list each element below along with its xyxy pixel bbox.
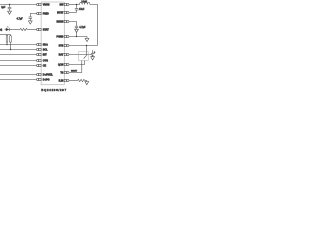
wire D+/PSEL <box>0 74 36 76</box>
wire REGN cap return <box>76 32 78 36</box>
wire SYS rail <box>69 45 97 47</box>
pin ILIM <box>64 79 69 81</box>
wire BAT <box>69 54 92 56</box>
wire D-/PG <box>0 79 36 81</box>
op-amp U1 (charger IC BQ24296/297 body) <box>41 2 64 85</box>
wire pull-up rail <box>0 34 11 36</box>
svg-text:n): n) <box>0 29 2 32</box>
LED D1 <box>5 26 20 31</box>
svg-text:STAT: STAT <box>43 29 49 32</box>
ground GND1 <box>8 11 12 14</box>
svg-text:TS: TS <box>60 72 63 75</box>
svg-text:BQ24296/297: BQ24296/297 <box>41 88 67 92</box>
pin CE <box>37 64 42 66</box>
resistor R4 (ILIM) <box>78 79 85 81</box>
wire SYS to pack <box>86 46 88 52</box>
pin STAT <box>37 28 42 30</box>
ground GND6 <box>85 82 89 85</box>
wire TS <box>69 61 82 73</box>
svg-text:SW: SW <box>60 3 65 6</box>
svg-text:REGN: REGN <box>56 20 63 23</box>
node PGND junction <box>76 36 77 37</box>
svg-text:PGND: PGND <box>56 35 63 38</box>
wire OTG <box>0 60 36 62</box>
svg-text:INT: INT <box>43 54 47 57</box>
wire ILIM <box>69 80 77 82</box>
pin D+/PSEL <box>37 73 42 75</box>
ground GND5 <box>91 57 95 60</box>
pin BTST <box>64 11 69 13</box>
capacitor C4 4.7uF (REGN) <box>75 26 78 29</box>
node SYS junction <box>86 45 87 46</box>
pin PMID <box>37 12 42 14</box>
resistor R2 (SDA pull-up) <box>6 35 8 45</box>
pin PGND <box>64 35 69 37</box>
battery pack box <box>79 52 89 61</box>
pin VBUS <box>37 3 42 5</box>
resistor R1 (STAT) <box>20 28 27 30</box>
pin SDA <box>37 43 42 45</box>
wire INT <box>0 54 36 56</box>
svg-text:D+/PSEL: D+/PSEL <box>43 74 54 77</box>
svg-text:PMID: PMID <box>43 13 49 16</box>
pin SYS <box>64 44 69 46</box>
svg-text:ILIM: ILIM <box>59 80 64 83</box>
wire CE <box>0 65 36 67</box>
ground GND4 <box>85 38 89 41</box>
pin D-/PG <box>37 78 42 80</box>
svg-text:+: + <box>94 51 96 54</box>
ground GND2 <box>28 21 32 24</box>
resistor R3 (SCL pull-up) <box>10 35 12 50</box>
ground GND3 <box>75 29 79 32</box>
svg-text:OTG: OTG <box>43 60 48 63</box>
inductor L1 <box>80 2 90 4</box>
svg-text:2.2µH: 2.2µH <box>81 1 87 3</box>
wire SCL <box>0 49 36 51</box>
pin OTG <box>37 59 42 61</box>
svg-text:BAT: BAT <box>59 54 64 57</box>
capacitor C2 4.7uF <box>29 17 33 21</box>
svg-text:4.7µF: 4.7µF <box>79 26 86 29</box>
wire PMID net <box>30 14 36 18</box>
pin SW <box>64 3 69 5</box>
svg-text:1µF: 1µF <box>1 6 6 9</box>
battery cell BT1 <box>91 50 95 57</box>
svg-text:D-/PG: D-/PG <box>43 78 50 81</box>
wire VBUS net <box>0 4 36 6</box>
svg-text:VBUS: VBUS <box>43 3 50 6</box>
switch S1 (inside pack) <box>84 52 87 59</box>
svg-text:BTST: BTST <box>57 11 64 14</box>
pin QON <box>64 63 69 65</box>
wire QON <box>69 61 84 65</box>
svg-text:CE: CE <box>43 65 47 68</box>
svg-text:SDA: SDA <box>43 43 48 46</box>
node VBUS junction <box>9 4 10 5</box>
wire REGN <box>69 22 76 27</box>
pin REGN <box>64 20 69 22</box>
wire SW to inductor <box>69 4 79 6</box>
wire PGND <box>69 37 87 39</box>
pin TS <box>64 71 69 73</box>
svg-text:47nF: 47nF <box>79 8 85 11</box>
svg-text:QON: QON <box>58 64 64 67</box>
svg-text:SYS: SYS <box>59 45 64 48</box>
wire BTST <box>69 12 76 14</box>
node SW junction <box>76 4 77 5</box>
svg-text:4.7µF: 4.7µF <box>17 18 24 21</box>
pin BAT <box>64 53 69 55</box>
node SDA junction <box>6 44 7 45</box>
wire inductor to SYS rail <box>90 5 98 46</box>
svg-text:103AT: 103AT <box>71 70 78 73</box>
capacitor C1 1uF <box>8 5 12 12</box>
capacitor C3 47nF (bootstrap) <box>75 5 78 13</box>
pin SCL <box>37 48 42 50</box>
wire ILIM resistor to ground <box>85 81 87 82</box>
wire STAT <box>27 29 36 31</box>
pin INT <box>37 53 42 55</box>
node SCL junction <box>10 49 11 50</box>
wire SDA <box>0 44 36 46</box>
svg-text:SCL: SCL <box>43 49 48 52</box>
